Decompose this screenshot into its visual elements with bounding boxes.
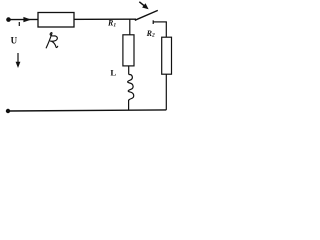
svg-text:L: L bbox=[110, 68, 116, 78]
svg-text:U: U bbox=[11, 36, 18, 46]
